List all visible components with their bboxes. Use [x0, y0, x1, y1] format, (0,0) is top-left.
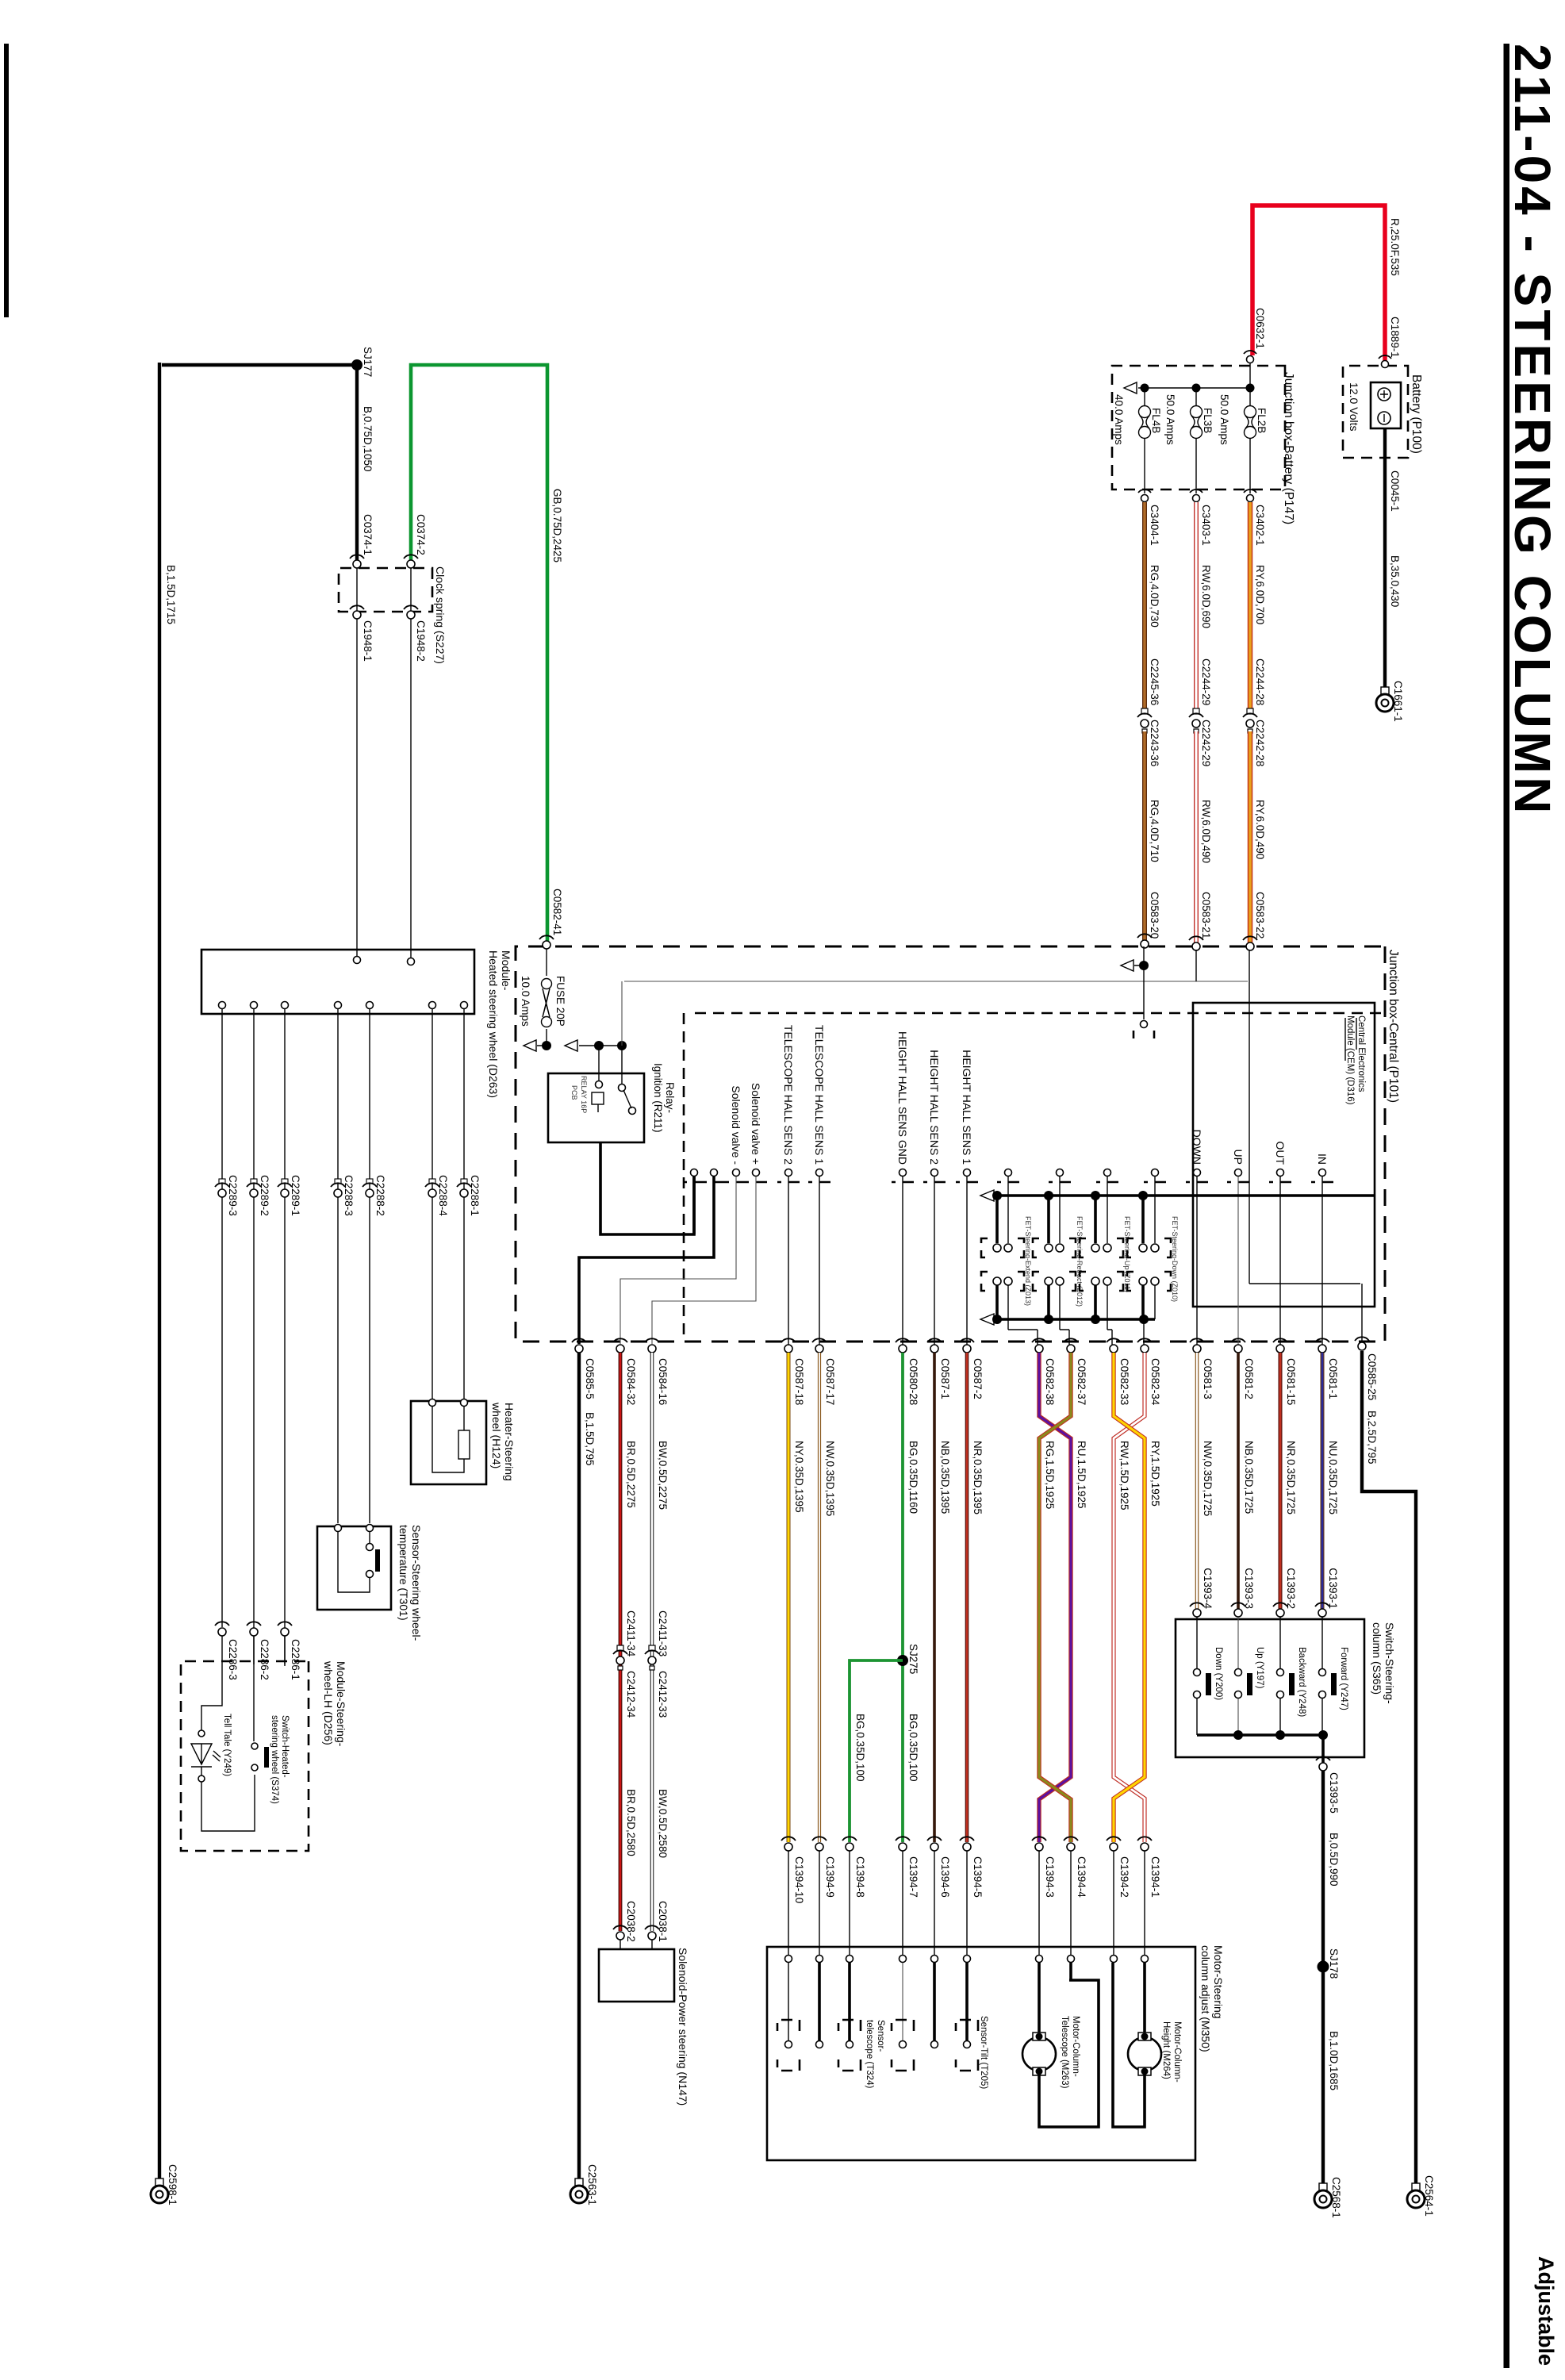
svg-text:B,35.0,430: B,35.0,430	[1389, 555, 1401, 607]
svg-text:C2568-1: C2568-1	[1330, 2177, 1342, 2218]
wire NB C0587-1	[933, 1353, 936, 1842]
svg-text:Telescope (M263): Telescope (M263)	[1060, 2016, 1069, 2089]
svg-text:C1394-1: C1394-1	[1149, 1856, 1161, 1898]
wire BG C0580-28	[901, 1353, 904, 1842]
svg-text:PCB: PCB	[570, 1085, 578, 1100]
svg-text:C2411-33: C2411-33	[657, 1610, 669, 1656]
svg-text:RW,6.0D,490: RW,6.0D,490	[1200, 800, 1212, 863]
svg-text:UP: UP	[1232, 1150, 1245, 1165]
thin wires C1394 to M350	[788, 1851, 1145, 1956]
svg-text:RELAY 16P: RELAY 16P	[580, 1076, 588, 1113]
svg-text:C0582-41: C0582-41	[551, 889, 563, 935]
fuse FL2B	[1249, 388, 1251, 406]
svg-text:Sensor-: Sensor-	[876, 2020, 885, 2052]
CEM inner dashed boundary	[684, 1013, 1381, 1339]
svg-text:Motor-Column-: Motor-Column-	[1172, 2021, 1182, 2082]
svg-text:C2243-36: C2243-36	[1149, 720, 1160, 766]
svg-text:SJ275: SJ275	[907, 1644, 919, 1674]
connector C3404-1	[1141, 495, 1149, 502]
junction box battery P147 dashed box	[1112, 366, 1285, 489]
svg-text:C2242-28: C2242-28	[1254, 720, 1266, 766]
wire B,1.5D,795 C0585-5	[577, 1353, 581, 2178]
ground ring C2598-1	[151, 2178, 168, 2203]
svg-text:Sensor-Tilt (T205): Sensor-Tilt (T205)	[979, 2016, 988, 2089]
svg-text:C0584-32: C0584-32	[625, 1358, 637, 1405]
svg-text:Backward (Y248): Backward (Y248)	[1297, 1647, 1306, 1717]
svg-text:HEIGHT HALL SENS 1: HEIGHT HALL SENS 1	[961, 1050, 973, 1165]
svg-text:B,1.0D,1685: B,1.0D,1685	[1328, 2031, 1340, 2090]
svg-text:Down (Y200): Down (Y200)	[1214, 1647, 1223, 1700]
svg-text:temperature (T301): temperature (T301)	[397, 1525, 410, 1621]
wire RY,6.0D,700	[1248, 502, 1253, 711]
FET cell Z010	[1127, 1177, 1179, 1345]
svg-text:C0585-5: C0585-5	[584, 1358, 596, 1399]
svg-text:IN: IN	[1316, 1154, 1329, 1165]
bus continuation arrow	[1124, 382, 1137, 393]
svg-text:NU,0.35D,1725: NU,0.35D,1725	[1327, 1441, 1339, 1514]
FET lower bus	[995, 1318, 1155, 1321]
svg-text:C0374-2: C0374-2	[415, 514, 427, 555]
svg-text:Module (CEM) (D316): Module (CEM) (D316)	[1345, 1015, 1355, 1105]
connector C3402-1	[1247, 495, 1254, 502]
H124 heater box	[411, 1401, 486, 1484]
svg-text:C0587-17: C0587-17	[824, 1358, 836, 1405]
wire RY,6.0D,490	[1248, 731, 1253, 944]
svg-text:FET-Steering-Extend (Z013): FET-Steering-Extend (Z013)	[1024, 1216, 1032, 1306]
switch S374	[251, 1743, 258, 1749]
svg-text:HEIGHT HALL SENS 2: HEIGHT HALL SENS 2	[928, 1050, 941, 1165]
FET cell Z011	[1080, 1177, 1131, 1345]
svg-text:RY,1.5D,1925: RY,1.5D,1925	[1149, 1441, 1161, 1507]
svg-text:Tell Tale (Y249): Tell Tale (Y249)	[222, 1714, 232, 1776]
bottom-left partial border	[4, 44, 9, 317]
sensor tilt T205	[965, 1963, 969, 2040]
svg-text:BR,0.5D,2275: BR,0.5D,2275	[625, 1441, 637, 1508]
svg-text:C1393-4: C1393-4	[1202, 1568, 1214, 1609]
svg-text:GB,0.75D,2425: GB,0.75D,2425	[551, 489, 563, 562]
svg-text:SJ177: SJ177	[362, 347, 374, 377]
sensor telescope T324	[848, 1963, 851, 2040]
svg-text:C1394-9: C1394-9	[824, 1856, 836, 1898]
svg-text:wheel-LH (D256): wheel-LH (D256)	[322, 1660, 335, 1745]
wire RY entry down to C0585-25	[1249, 950, 1362, 1341]
connectors C0374-1 / C0374-2	[353, 560, 361, 568]
C1393 connector row	[1193, 1609, 1326, 1617]
C1393-5 connector	[1319, 1763, 1327, 1771]
module D263 box	[201, 950, 474, 1014]
svg-text:C2289-2: C2289-2	[259, 1175, 270, 1216]
svg-text:C2411-34: C2411-34	[625, 1610, 637, 1657]
connector C0632-1	[1247, 356, 1254, 363]
wire RW entry to bus	[1195, 950, 1197, 981]
svg-text:Height (M264): Height (M264)	[1161, 2021, 1171, 2079]
svg-text:C2242-29: C2242-29	[1200, 720, 1212, 766]
svg-text:C2245-36: C2245-36	[1149, 658, 1160, 705]
svg-text:Switch-Heated-: Switch-Heated-	[280, 1715, 290, 1778]
svg-text:50.0 Amps: 50.0 Amps	[1218, 394, 1230, 445]
wires to D263	[357, 619, 411, 958]
svg-text:C2288-1: C2288-1	[469, 1175, 481, 1216]
svg-text:Forward (Y247): Forward (Y247)	[1339, 1647, 1348, 1710]
battery symbol	[1371, 382, 1401, 428]
svg-text:C0581-3: C0581-3	[1202, 1358, 1214, 1399]
svg-text:12.0 Volts: 12.0 Volts	[1348, 382, 1360, 432]
svg-text:B,0.5D,990: B,0.5D,990	[1328, 1833, 1340, 1887]
wire BR C0584-32	[619, 1353, 623, 1931]
svg-text:Motor-Column-: Motor-Column-	[1071, 2016, 1080, 2077]
red battery feed wire	[1252, 205, 1385, 366]
svg-text:RY,6.0D,490: RY,6.0D,490	[1254, 800, 1266, 859]
svg-text:NR,0.35D,1725: NR,0.35D,1725	[1285, 1441, 1297, 1514]
svg-text:C2038-1: C2038-1	[657, 1901, 669, 1942]
svg-text:50.0 Amps: 50.0 Amps	[1164, 394, 1176, 445]
motor M264 height	[1143, 1963, 1146, 2036]
svg-text:C0583-21: C0583-21	[1200, 892, 1212, 939]
wire NW C0581-3	[1195, 1353, 1199, 1609]
CEM solid box	[1193, 1003, 1375, 1307]
inline connector C2245-36 C2243-36	[1141, 708, 1148, 714]
svg-text:C3404-1: C3404-1	[1149, 505, 1160, 546]
svg-text:telescope (T324): telescope (T324)	[865, 2020, 874, 2088]
svg-text:C2412-34: C2412-34	[625, 1671, 637, 1718]
wire battery minus C0045-1	[1383, 428, 1387, 687]
connector C0582-41	[543, 941, 550, 949]
sensor pins	[1005, 1169, 1012, 1177]
wire NB C0581-2	[1237, 1353, 1240, 1609]
P147 bus	[1138, 363, 1250, 388]
junction dot + arrow	[542, 1041, 551, 1050]
wire to SJ178 and ground	[1321, 1771, 1325, 2183]
CEM pin (RG feed)	[1141, 1021, 1148, 1028]
svg-text:B,1.5D,1715: B,1.5D,1715	[165, 565, 177, 624]
wire RY C0582-33 with double crossover	[1114, 1353, 1145, 1842]
pin bracket dashes	[683, 1181, 1333, 1184]
wire NR C0581-15	[1279, 1353, 1283, 1609]
output pins	[219, 1002, 226, 1009]
svg-text:RY,6.0D,700: RY,6.0D,700	[1254, 565, 1266, 624]
svg-text:40.0 Amps: 40.0 Amps	[1113, 394, 1125, 445]
svg-text:FL3B: FL3B	[1202, 408, 1214, 433]
wire from C0582-41 to fuse	[546, 949, 547, 976]
svg-text:NR,0.35D,1395: NR,0.35D,1395	[972, 1441, 984, 1514]
svg-text:BW,0.5D,2275: BW,0.5D,2275	[657, 1441, 669, 1510]
svg-text:C0045-1: C0045-1	[1389, 470, 1401, 512]
up Y197	[1237, 1617, 1239, 1668]
svg-text:Junction box-Battery (P147): Junction box-Battery (P147)	[1282, 372, 1295, 524]
svg-text:BG,0.35D,100: BG,0.35D,100	[907, 1714, 919, 1782]
connector C1889-1	[1382, 361, 1389, 368]
svg-text:NB,0.35D,1725: NB,0.35D,1725	[1243, 1441, 1255, 1514]
down Y200	[1196, 1617, 1198, 1668]
svg-text:C2598-1: C2598-1	[167, 2164, 178, 2205]
svg-text:wheel (H124): wheel (H124)	[490, 1402, 503, 1468]
svg-text:Battery (P100): Battery (P100)	[1410, 374, 1423, 454]
svg-text:Relay-: Relay-	[664, 1082, 676, 1113]
relay output wire	[600, 1142, 694, 1234]
wire B,2.5D,795 to C2564-1	[1362, 1351, 1416, 2183]
svg-text:C0581-1: C0581-1	[1327, 1358, 1339, 1399]
svg-text:C1394-8: C1394-8	[854, 1856, 866, 1898]
inline connector C2244-29 C2242-29	[1193, 708, 1199, 714]
C1394 connector row	[784, 1843, 1149, 1851]
svg-text:C2286-1: C2286-1	[290, 1639, 301, 1680]
FET bus (CEM lower edge bus)	[995, 1194, 1375, 1197]
ground ring C1661-1	[1376, 687, 1394, 712]
T301 sensor box	[317, 1526, 391, 1610]
svg-text:FET-Steering-Retract (Z012): FET-Steering-Retract (Z012)	[1076, 1216, 1084, 1307]
svg-text:C2288-4: C2288-4	[437, 1175, 449, 1216]
battery P100 dashed box	[1343, 366, 1408, 458]
FET cell Z012	[1033, 1177, 1084, 1345]
svg-text:C1393-2: C1393-2	[1285, 1568, 1297, 1609]
svg-text:HEIGHT HALL SENS GND: HEIGHT HALL SENS GND	[896, 1031, 909, 1165]
svg-text:BW,0.5D,2580: BW,0.5D,2580	[657, 1789, 669, 1858]
svg-text:Up (Y197): Up (Y197)	[1255, 1647, 1264, 1689]
svg-text:C2288-3: C2288-3	[343, 1175, 355, 1216]
svg-text:column adjust (M350): column adjust (M350)	[1199, 1945, 1212, 2052]
svg-text:RG,1.5D,1925: RG,1.5D,1925	[1044, 1441, 1056, 1509]
svg-text:RG,4.0D,730: RG,4.0D,730	[1149, 565, 1160, 628]
wires through clock spring	[357, 568, 411, 611]
svg-text:C0582-38: C0582-38	[1044, 1358, 1056, 1405]
module D256 dashed box	[181, 1661, 309, 1851]
svg-text:NY,0.35D,1395: NY,0.35D,1395	[793, 1441, 805, 1513]
svg-text:column (S365): column (S365)	[1371, 1622, 1383, 1695]
gray B+ bus	[624, 981, 1248, 982]
inline connector C2244-28 C2242-28	[1247, 708, 1253, 714]
connector C0583-20	[1141, 940, 1149, 948]
wire RU C0582-38 with double crossover	[1039, 1353, 1071, 1842]
svg-text:C1394-3: C1394-3	[1044, 1856, 1056, 1898]
svg-text:TELESCOPE HALL SENS 2: TELESCOPE HALL SENS 2	[782, 1025, 795, 1165]
svg-text:C3402-1: C3402-1	[1254, 505, 1266, 546]
svg-text:Solenoid-Power steering (N147): Solenoid-Power steering (N147)	[677, 1948, 689, 2106]
wire NR C0587-2	[965, 1353, 969, 1842]
svg-text:C0582-37: C0582-37	[1076, 1358, 1087, 1405]
svg-text:C0587-18: C0587-18	[793, 1358, 805, 1405]
link wire	[201, 1775, 255, 1831]
svg-text:RG,4.0D,710: RG,4.0D,710	[1149, 800, 1160, 862]
switch S365 box	[1176, 1619, 1364, 1757]
svg-text:Solenoid valve -: Solenoid valve -	[730, 1085, 742, 1165]
fuse FL3B	[1195, 388, 1197, 406]
svg-text:C0587-2: C0587-2	[972, 1358, 984, 1399]
FUSE 20P symbol	[542, 979, 552, 1027]
svg-text:C1889-1: C1889-1	[1389, 317, 1401, 358]
fuse FL4B	[1144, 388, 1145, 406]
svg-text:NB,0.35D,1395: NB,0.35D,1395	[939, 1441, 951, 1514]
svg-text:SJ178: SJ178	[1328, 1948, 1340, 1979]
wire RW,6.0D,490	[1194, 731, 1199, 944]
wire RG,4.0D,730	[1142, 502, 1147, 711]
solenoid N147 box	[599, 1949, 674, 2002]
svg-text:C2563-1: C2563-1	[586, 2164, 598, 2205]
FET cell Z013	[981, 1177, 1038, 1345]
motor M263 telescope	[1038, 1963, 1041, 2036]
svg-text:C0582-34: C0582-34	[1149, 1358, 1161, 1406]
connector C0583-21	[1192, 942, 1200, 950]
svg-text:B,0.75D,1050: B,0.75D,1050	[362, 406, 374, 472]
internal pin wires	[1321, 1177, 1323, 1346]
svg-text:C0581-15: C0581-15	[1285, 1358, 1297, 1405]
svg-text:C1394-6: C1394-6	[939, 1856, 951, 1898]
svg-text:NW,0.35D,1395: NW,0.35D,1395	[824, 1441, 836, 1516]
svg-text:RU,1.5D,1925: RU,1.5D,1925	[1076, 1441, 1087, 1509]
svg-text:Motor-Steering: Motor-Steering	[1212, 1945, 1225, 2019]
svg-text:C0584-16: C0584-16	[657, 1358, 669, 1405]
svg-text:BG,0.35D,1160: BG,0.35D,1160	[907, 1441, 919, 1514]
relay R211 box	[548, 1073, 644, 1142]
wire NW C0587-17	[818, 1353, 821, 1842]
relay feeds on bus line	[565, 1040, 622, 1051]
svg-text:C2564-1: C2564-1	[1423, 2175, 1435, 2217]
forward Y247	[1321, 1617, 1323, 1668]
C0585-25 connector	[1358, 1342, 1366, 1350]
svg-text:211-04 - STEERING COLUMN: 211-04 - STEERING COLUMN	[1504, 44, 1561, 816]
svg-text:C0587-1: C0587-1	[939, 1358, 951, 1399]
junction dot RG with arrow	[1143, 946, 1145, 1019]
svg-text:Module-: Module-	[500, 950, 512, 991]
svg-text:C2244-28: C2244-28	[1254, 658, 1266, 705]
wire BW C0584-16	[650, 1353, 654, 1931]
wire RG,4.0D,710	[1142, 731, 1147, 942]
backward Y248	[1279, 1617, 1281, 1668]
svg-text:C1394-4: C1394-4	[1076, 1856, 1087, 1898]
wire RW,6.0D,690	[1194, 502, 1199, 711]
svg-text:C2289-3: C2289-3	[227, 1175, 239, 1216]
wire NY C0587-18	[787, 1353, 791, 1842]
svg-text:steering wheel (S374): steering wheel (S374)	[270, 1715, 279, 1804]
svg-text:C2038-2: C2038-2	[625, 1901, 637, 1942]
svg-text:TELESCOPE HALL SENS 1: TELESCOPE HALL SENS 1	[813, 1025, 826, 1165]
internal bus	[1197, 1735, 1323, 1763]
svg-text:C1948-1: C1948-1	[362, 620, 374, 662]
svg-text:C0585-25: C0585-25	[1366, 1353, 1378, 1400]
svg-text:DOWN: DOWN	[1191, 1130, 1203, 1165]
motor assembly M350 box	[767, 1947, 1195, 2160]
svg-text:Clock spring (S227): Clock spring (S227)	[434, 566, 447, 664]
svg-text:C1394-10: C1394-10	[793, 1856, 805, 1903]
svg-text:Ignition (R211): Ignition (R211)	[652, 1063, 664, 1133]
svg-text:C1948-2: C1948-2	[415, 620, 427, 662]
header rule	[1504, 44, 1510, 2368]
connector C3403-1	[1193, 495, 1200, 502]
svg-text:C0632-1: C0632-1	[1254, 308, 1266, 349]
svg-text:Solenoid valve +: Solenoid valve +	[750, 1083, 762, 1165]
connectors C1948-1 / C1948-2	[353, 611, 361, 619]
svg-text:Adjustable: Adjustable	[1534, 2256, 1558, 2366]
inline connectors row C2288/C2289	[215, 1175, 481, 1216]
svg-text:Module-Steering-: Module-Steering-	[335, 1661, 347, 1747]
svg-text:C0583-22: C0583-22	[1254, 892, 1266, 939]
clock spring S227 dashed box	[339, 568, 432, 612]
svg-text:Junction box-Central (P101): Junction box-Central (P101)	[1387, 950, 1400, 1103]
svg-text:C2286-2: C2286-2	[259, 1639, 270, 1680]
svg-text:C1393-3: C1393-3	[1243, 1568, 1255, 1609]
svg-text:C1393-1: C1393-1	[1327, 1568, 1339, 1609]
svg-text:C1394-2: C1394-2	[1118, 1856, 1130, 1898]
svg-text:C0581-2: C0581-2	[1243, 1358, 1255, 1399]
svg-text:B,2.5D,795: B,2.5D,795	[1366, 1411, 1378, 1464]
svg-text:C2286-3: C2286-3	[227, 1639, 239, 1680]
svg-text:C3403-1: C3403-1	[1200, 505, 1212, 546]
svg-text:B,1.5D,795: B,1.5D,795	[584, 1412, 596, 1466]
svg-text:Central Electronics: Central Electronics	[1356, 1015, 1366, 1092]
svg-text:C0374-1: C0374-1	[362, 514, 374, 555]
wire RW C0582-34 with double crossover	[1114, 1353, 1145, 1842]
svg-text:BG,0.35D,100: BG,0.35D,100	[854, 1714, 866, 1782]
relay internals	[596, 1081, 603, 1088]
SJ177 wire	[159, 363, 357, 2178]
wire RG C0582-37 with double crossover	[1039, 1353, 1071, 1842]
exit connector row	[575, 1345, 1326, 1353]
svg-text:Sensor-Steering wheel-: Sensor-Steering wheel-	[410, 1525, 423, 1641]
svg-text:BR,0.5D,2580: BR,0.5D,2580	[625, 1789, 637, 1856]
svg-text:C2288-2: C2288-2	[374, 1175, 386, 1216]
svg-text:C2244-29: C2244-29	[1200, 658, 1212, 705]
svg-text:NW,0.35D,1725: NW,0.35D,1725	[1202, 1441, 1214, 1516]
entry pins	[785, 1956, 1149, 1963]
svg-text:FL2B: FL2B	[1256, 408, 1268, 433]
svg-text:C1394-5: C1394-5	[972, 1856, 984, 1898]
svg-text:C0580-28: C0580-28	[907, 1358, 919, 1405]
svg-text:Heated steering wheel (D263): Heated steering wheel (D263)	[487, 950, 500, 1098]
svg-text:Heater-Steering: Heater-Steering	[503, 1403, 516, 1481]
svg-text:C0582-33: C0582-33	[1118, 1358, 1130, 1405]
input pins from clock spring	[354, 957, 361, 964]
svg-text:RW,1.5D,1925: RW,1.5D,1925	[1118, 1441, 1130, 1511]
svg-text:10.0 Amps: 10.0 Amps	[520, 976, 531, 1027]
ground ring C2563-1	[570, 2178, 588, 2203]
svg-text:FET-Steering-Down (Z010): FET-Steering-Down (Z010)	[1171, 1216, 1179, 1302]
svg-text:C0583-20: C0583-20	[1149, 892, 1160, 939]
svg-text:C1394-7: C1394-7	[907, 1856, 919, 1898]
svg-text:R,25.0F,535: R,25.0F,535	[1389, 218, 1401, 276]
7 wires with inline connectors	[222, 1008, 464, 1664]
SJ275 junction + branch	[897, 1655, 908, 1666]
pins IN OUT UP DOWN	[1319, 1169, 1326, 1177]
junction box P101 dashed box	[516, 946, 1385, 1342]
svg-text:C2412-33: C2412-33	[657, 1671, 669, 1718]
tell tale LED Y249	[201, 1658, 222, 1730]
svg-text:FL4B: FL4B	[1150, 408, 1162, 433]
C2286 connector row	[281, 1628, 289, 1636]
svg-text:OUT: OUT	[1274, 1141, 1287, 1165]
wire NU C0581-1	[1321, 1353, 1325, 1609]
svg-text:FUSE 20P: FUSE 20P	[554, 976, 566, 1027]
connector C0583-22	[1246, 942, 1254, 950]
svg-text:C2289-1: C2289-1	[290, 1175, 301, 1216]
svg-text:C1393-5: C1393-5	[1328, 1772, 1340, 1814]
green wire GB,0.75D,2425	[411, 365, 547, 942]
svg-text:Switch-Steering-: Switch-Steering-	[1383, 1622, 1396, 1704]
svg-text:C1661-1: C1661-1	[1392, 681, 1404, 722]
svg-text:RW,6.0D,690: RW,6.0D,690	[1200, 565, 1212, 628]
